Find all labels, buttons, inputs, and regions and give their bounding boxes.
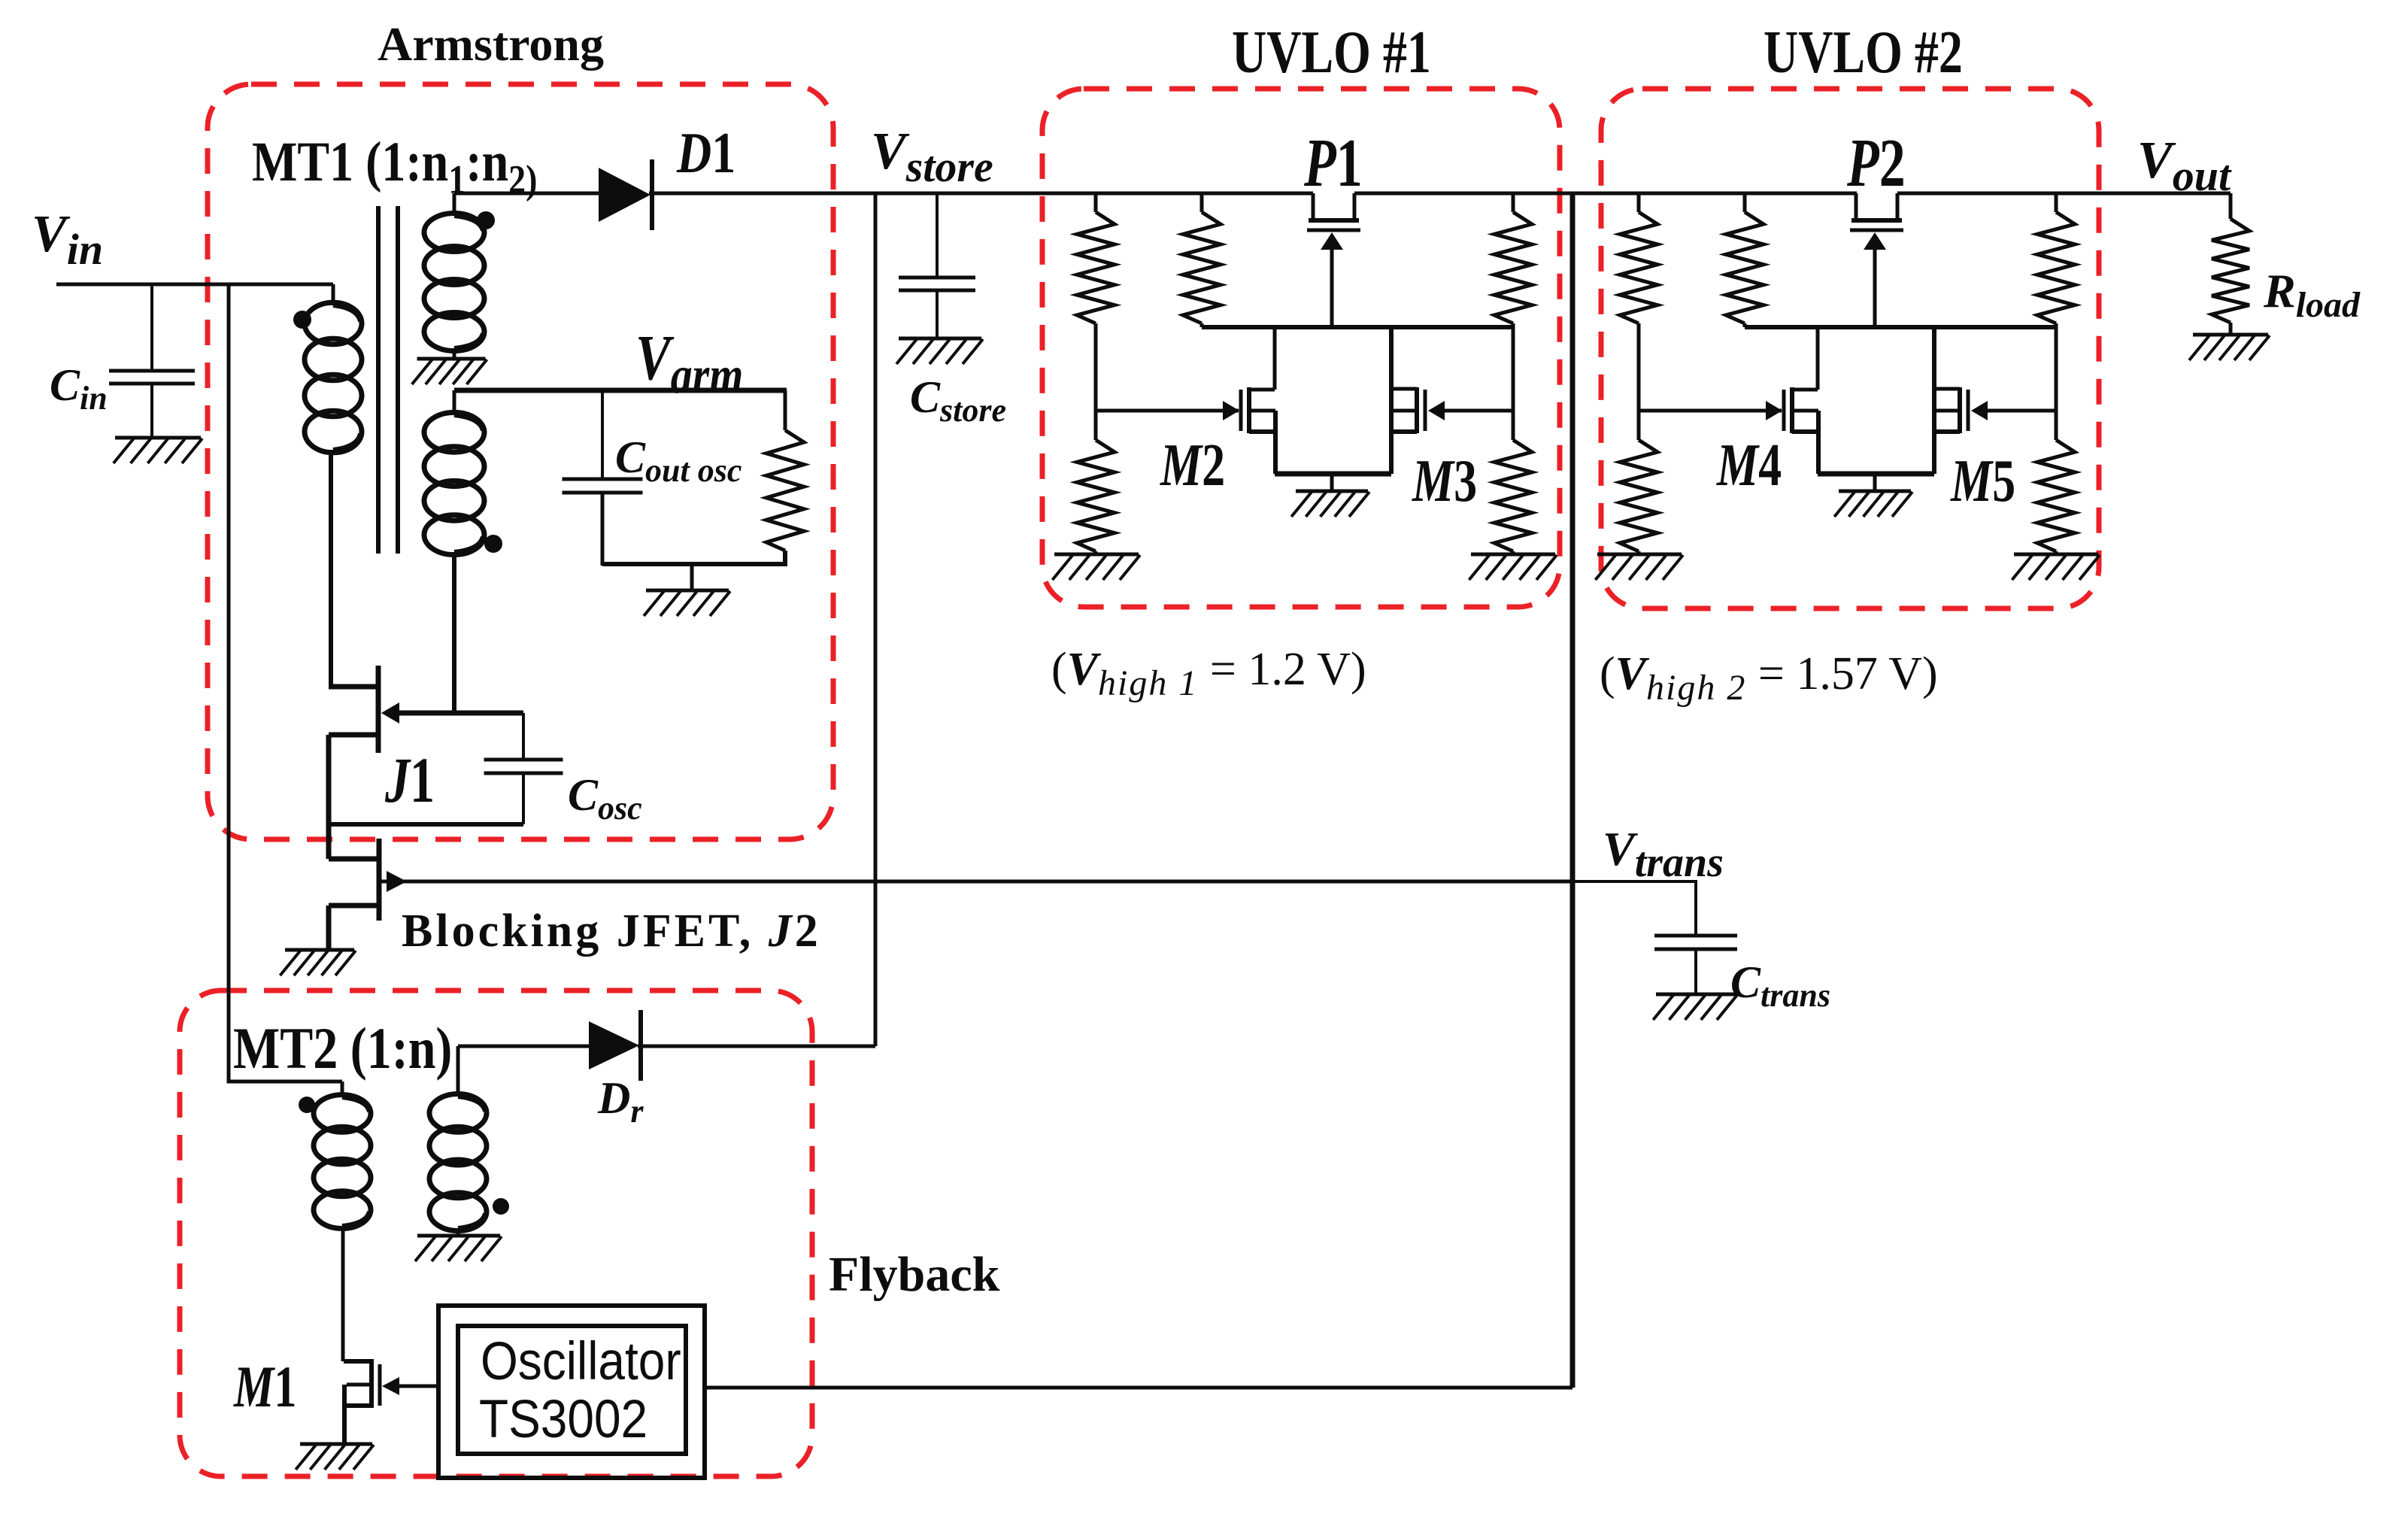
resistor R1 lower bbox=[1094, 409, 1098, 440]
wire P1 gate node bbox=[1202, 325, 1513, 329]
wire R3 middle bbox=[1512, 323, 1515, 409]
wire MT1 secondary n1 top lead bbox=[453, 193, 456, 216]
wire M1 source down bbox=[342, 1385, 347, 1444]
section box: UVLO #2 bbox=[1601, 89, 2099, 608]
wire J1 source stub bbox=[329, 733, 376, 738]
resistor R4 upper bbox=[1637, 193, 1641, 212]
wire Cout-osc top lead bbox=[601, 390, 604, 479]
wire MT1 n1 to ground bbox=[453, 348, 456, 359]
wire Vtrans to Ctrans bbox=[1572, 881, 1696, 936]
wire MT2 secondary top lead bbox=[456, 1046, 460, 1097]
svg-text:Oscillator: Oscillator bbox=[481, 1331, 681, 1391]
ground under M1 bbox=[296, 1444, 374, 1470]
transistor M1 channel bar bbox=[369, 1363, 374, 1408]
ground under MT1 n1 bbox=[412, 359, 487, 384]
wire M3 body stub bbox=[1391, 409, 1417, 413]
capacitor Cin bbox=[109, 371, 195, 384]
wire M4 source stub bbox=[1792, 429, 1818, 434]
transistor M3 channel bar bbox=[1415, 387, 1419, 433]
svg-text:J1: J1 bbox=[384, 745, 435, 816]
wire P2 gate node bbox=[1745, 325, 2056, 329]
ground under M4/M5 bbox=[1834, 491, 1912, 517]
wire Cosc top lead bbox=[522, 713, 525, 760]
wire Varm node bbox=[454, 388, 787, 393]
svg-text:M1: M1 bbox=[233, 1355, 296, 1420]
transistor M1 gate arrow bbox=[382, 1377, 399, 1395]
wire R1 middle bbox=[1094, 323, 1098, 409]
wire MT2 primary top lead bbox=[341, 1082, 344, 1097]
ground under tank bbox=[644, 590, 730, 616]
resistor R3 lower bbox=[1512, 409, 1515, 440]
resistor R6 lower bbox=[2055, 409, 2058, 440]
wire J2 source stub bbox=[329, 903, 377, 909]
svg-text:P2: P2 bbox=[1846, 125, 1906, 201]
transistor M2 channel bar bbox=[1247, 387, 1251, 433]
transistor M4 channel bar bbox=[1790, 387, 1794, 433]
transistor P1 gate bar bbox=[1307, 229, 1360, 232]
polarity dot MT1 n2 bbox=[484, 535, 502, 553]
wire J2 drain stub bbox=[329, 857, 377, 862]
transistor P2 drain lead bbox=[1896, 193, 1900, 220]
section box: Flyback bbox=[180, 991, 812, 1476]
ground under R6 bbox=[2012, 554, 2100, 580]
wire MT1 primary to J1 drain bbox=[329, 450, 333, 687]
wire P2 gate down bbox=[1873, 247, 1877, 327]
wire M2 source down bbox=[1273, 411, 1278, 474]
svg-text:Flyback: Flyback bbox=[829, 1247, 1000, 1302]
wire M3 drain-source vertical bbox=[1389, 327, 1394, 474]
transistor P1 bulk arrow bbox=[1321, 232, 1343, 250]
resistor Rload bbox=[2212, 219, 2249, 323]
capacitor Cosc bbox=[484, 760, 563, 773]
wire M4/M5 source bus bbox=[1818, 472, 1934, 477]
transformer MT1 core bbox=[376, 206, 381, 554]
inductor MT1 secondary n2 winding bbox=[424, 412, 484, 554]
transistor P1 drain lead bbox=[1353, 193, 1357, 220]
transistor M5 gate arrow bbox=[1971, 401, 1988, 420]
transistor P2 channel bar bbox=[1851, 218, 1902, 223]
transistor J2 gate arrow bbox=[387, 871, 407, 892]
wire M4 body stub bbox=[1792, 409, 1818, 413]
svg-text:UVLO #1: UVLO #1 bbox=[1232, 18, 1431, 85]
wire Vout to Rload bbox=[2229, 193, 2233, 219]
polarity dot MT2 primary bbox=[299, 1097, 315, 1113]
wire M2 source stub bbox=[1249, 429, 1275, 434]
ground under R1 bbox=[1052, 554, 1140, 580]
wire source-bus ground stem bbox=[1330, 474, 1334, 491]
wire source-bus ground stem bbox=[1873, 474, 1877, 491]
transistor M3 gate bar bbox=[1424, 390, 1427, 431]
oscillator TS3002 inner box bbox=[458, 1326, 686, 1454]
inductor MT1 primary winding bbox=[305, 302, 362, 453]
wire J2 source to ground bbox=[326, 906, 332, 950]
wire M4 drain stub bbox=[1792, 388, 1818, 392]
wire J2 gate to Vtrans bbox=[381, 880, 1572, 884]
wire resistor lead from Varm bbox=[784, 390, 787, 430]
capacitor Ctrans bbox=[1654, 936, 1737, 949]
wire Dr to Vstore line bbox=[638, 1045, 875, 1048]
resistor R4 lower bbox=[1637, 409, 1641, 440]
oscillator TS3002 outer box bbox=[438, 1306, 705, 1478]
diode D1 bbox=[599, 159, 652, 230]
transistor P2 source lead bbox=[1855, 193, 1858, 220]
svg-text:D1: D1 bbox=[676, 122, 735, 186]
wire Vstore down to Dr diode bbox=[874, 193, 878, 1046]
wire M3 drain stub bbox=[1391, 387, 1417, 391]
wire P1 gate down bbox=[1330, 247, 1334, 327]
wire M5 body stub bbox=[1934, 409, 1960, 413]
ground under R3 bbox=[1469, 554, 1557, 580]
wire bus UVLO2 to Vout bbox=[1897, 192, 2231, 196]
wire MT1 primary top lead bbox=[332, 284, 335, 305]
resistor R6 upper bbox=[2055, 193, 2058, 212]
diode Dr bbox=[589, 1010, 641, 1081]
wire Rload to ground bbox=[2229, 323, 2233, 335]
wire MT2 to Dr bbox=[458, 1045, 591, 1048]
transistor M2 gate arrow bbox=[1223, 401, 1239, 420]
wire oscillator-tank bottom bbox=[602, 551, 785, 564]
wire Cin lead from Vin bbox=[150, 284, 153, 371]
wire M4 source down bbox=[1816, 411, 1821, 474]
wire M5 source stub bbox=[1934, 429, 1960, 434]
svg-text:UVLO #2: UVLO #2 bbox=[1764, 18, 1963, 85]
svg-text:M5: M5 bbox=[1950, 447, 2015, 514]
wire Vtrans vertical bbox=[1570, 193, 1576, 1388]
polarity dot MT1 primary bbox=[293, 311, 311, 329]
transistor J1 gate arrow bbox=[381, 702, 399, 724]
wire J1 gate bbox=[394, 711, 523, 716]
svg-text:TS3002: TS3002 bbox=[479, 1389, 647, 1449]
ground under J2 bbox=[280, 950, 356, 975]
svg-text:MT1 (1:n1:n2): MT1 (1:n1:n2) bbox=[252, 131, 537, 202]
wire J1 drain stub bbox=[329, 684, 376, 690]
wire M2 body stub bbox=[1249, 409, 1275, 413]
transistor M4 gate bar bbox=[1782, 390, 1786, 431]
wire R6 middle bbox=[2055, 323, 2058, 409]
wire M1 drain stub bbox=[344, 1359, 374, 1364]
wire bus UVLO1 to UVLO2 bbox=[1354, 192, 1857, 196]
wire MT2 secondary to ground bbox=[456, 1228, 460, 1236]
transistor M3 gate arrow bbox=[1428, 401, 1445, 420]
wire Ctrans to ground bbox=[1694, 949, 1697, 994]
transistor M1 gate bar bbox=[378, 1364, 382, 1406]
resistor R1 upper bbox=[1094, 193, 1098, 212]
ground under Cstore bbox=[896, 338, 983, 364]
wire Cstore to ground bbox=[936, 290, 939, 338]
inductor MT1 secondary n1 winding bbox=[424, 214, 484, 351]
polarity dot MT2 secondary bbox=[493, 1198, 509, 1215]
transistor J2 channel bar bbox=[377, 839, 382, 921]
wire M2 gate from divider bbox=[1096, 409, 1239, 413]
wire Cstore lead bbox=[936, 193, 939, 278]
wire M2 drain stub bbox=[1249, 388, 1275, 392]
polarity dot MT1 n1 bbox=[477, 211, 495, 229]
transistor P2 gate bar bbox=[1850, 229, 1903, 232]
resistor R3 upper bbox=[1512, 193, 1515, 212]
transistor M2 gate bar bbox=[1239, 390, 1243, 431]
wire M1 gate to oscillator bbox=[396, 1385, 438, 1388]
wire M5 drain stub bbox=[1934, 387, 1960, 391]
resistor R5 bbox=[1743, 193, 1747, 212]
wire Vin down to MT2 bbox=[229, 284, 342, 1082]
wire MT2 primary to M1 drain bbox=[341, 1226, 345, 1361]
svg-text:M3: M3 bbox=[1412, 447, 1477, 514]
resistor parallel with Cout osc bbox=[766, 430, 804, 551]
capacitor Cstore bbox=[899, 278, 975, 290]
capacitor Cout osc bbox=[563, 479, 643, 493]
wire R4 middle bbox=[1637, 323, 1641, 409]
svg-text:P1: P1 bbox=[1303, 125, 1363, 201]
section box: UVLO #1 bbox=[1042, 89, 1560, 607]
transistor J1 channel bar bbox=[376, 666, 381, 753]
ground under M2/M3 bbox=[1291, 491, 1369, 517]
transistor P2 bulk arrow bbox=[1864, 232, 1886, 250]
svg-text:M2: M2 bbox=[1160, 431, 1225, 499]
wire M1 source stub bbox=[347, 1403, 369, 1408]
wire bus n1-to-D1 bbox=[454, 192, 600, 196]
wire M3 source stub bbox=[1391, 429, 1417, 434]
svg-text:Armstrong: Armstrong bbox=[378, 17, 604, 71]
wire M3 gate from divider bbox=[1445, 409, 1513, 413]
wire Cout-osc bottom lead bbox=[601, 493, 605, 566]
inductor MT2 secondary winding bbox=[429, 1094, 487, 1231]
transistor M4 gate arrow bbox=[1766, 401, 1782, 420]
transistor P1 source lead bbox=[1312, 193, 1315, 220]
wire MT1 n2 bottom to J1 gate bbox=[452, 552, 456, 713]
wire J1 source down bbox=[326, 735, 332, 859]
wire M1 body stub bbox=[347, 1383, 369, 1387]
ground under Ctrans bbox=[1653, 994, 1737, 1020]
wire oscillator output to Vtrans bbox=[705, 1386, 1572, 1390]
wire bus Vstore bbox=[649, 192, 1313, 196]
ground under Cin bbox=[114, 438, 202, 463]
ground under Rload bbox=[2189, 335, 2270, 360]
wire MT1 n2 top lead to Varm bbox=[453, 390, 456, 415]
transistor M5 gate bar bbox=[1967, 390, 1970, 431]
wire Cin to ground bbox=[150, 384, 153, 438]
wire M5 drain-source vertical bbox=[1932, 327, 1936, 474]
svg-text:M4: M4 bbox=[1716, 431, 1782, 499]
transistor M5 channel bar bbox=[1958, 387, 1962, 433]
ground under MT2 secondary bbox=[415, 1236, 502, 1261]
wire tank ground stem bbox=[690, 564, 694, 590]
ground under R4 bbox=[1595, 554, 1683, 580]
transistor P1 channel bar bbox=[1309, 218, 1359, 223]
wire Cosc bottom lead bbox=[522, 773, 525, 824]
resistor R2 bbox=[1200, 193, 1204, 212]
wire M5 gate from divider bbox=[1988, 409, 2056, 413]
svg-text:MT2 (1:n): MT2 (1:n) bbox=[233, 1016, 452, 1081]
wire Vin horizontal bbox=[56, 283, 333, 287]
inductor MT2 primary winding bbox=[314, 1095, 371, 1229]
section box: Armstrong oscillator bbox=[208, 84, 833, 839]
wire M2/M3 source bus bbox=[1275, 472, 1391, 477]
wire Cosc return to J1 source bbox=[329, 822, 523, 827]
wire M4 gate from divider bbox=[1639, 409, 1782, 413]
svg-text:Blocking JFET, J2: Blocking JFET, J2 bbox=[402, 906, 821, 957]
